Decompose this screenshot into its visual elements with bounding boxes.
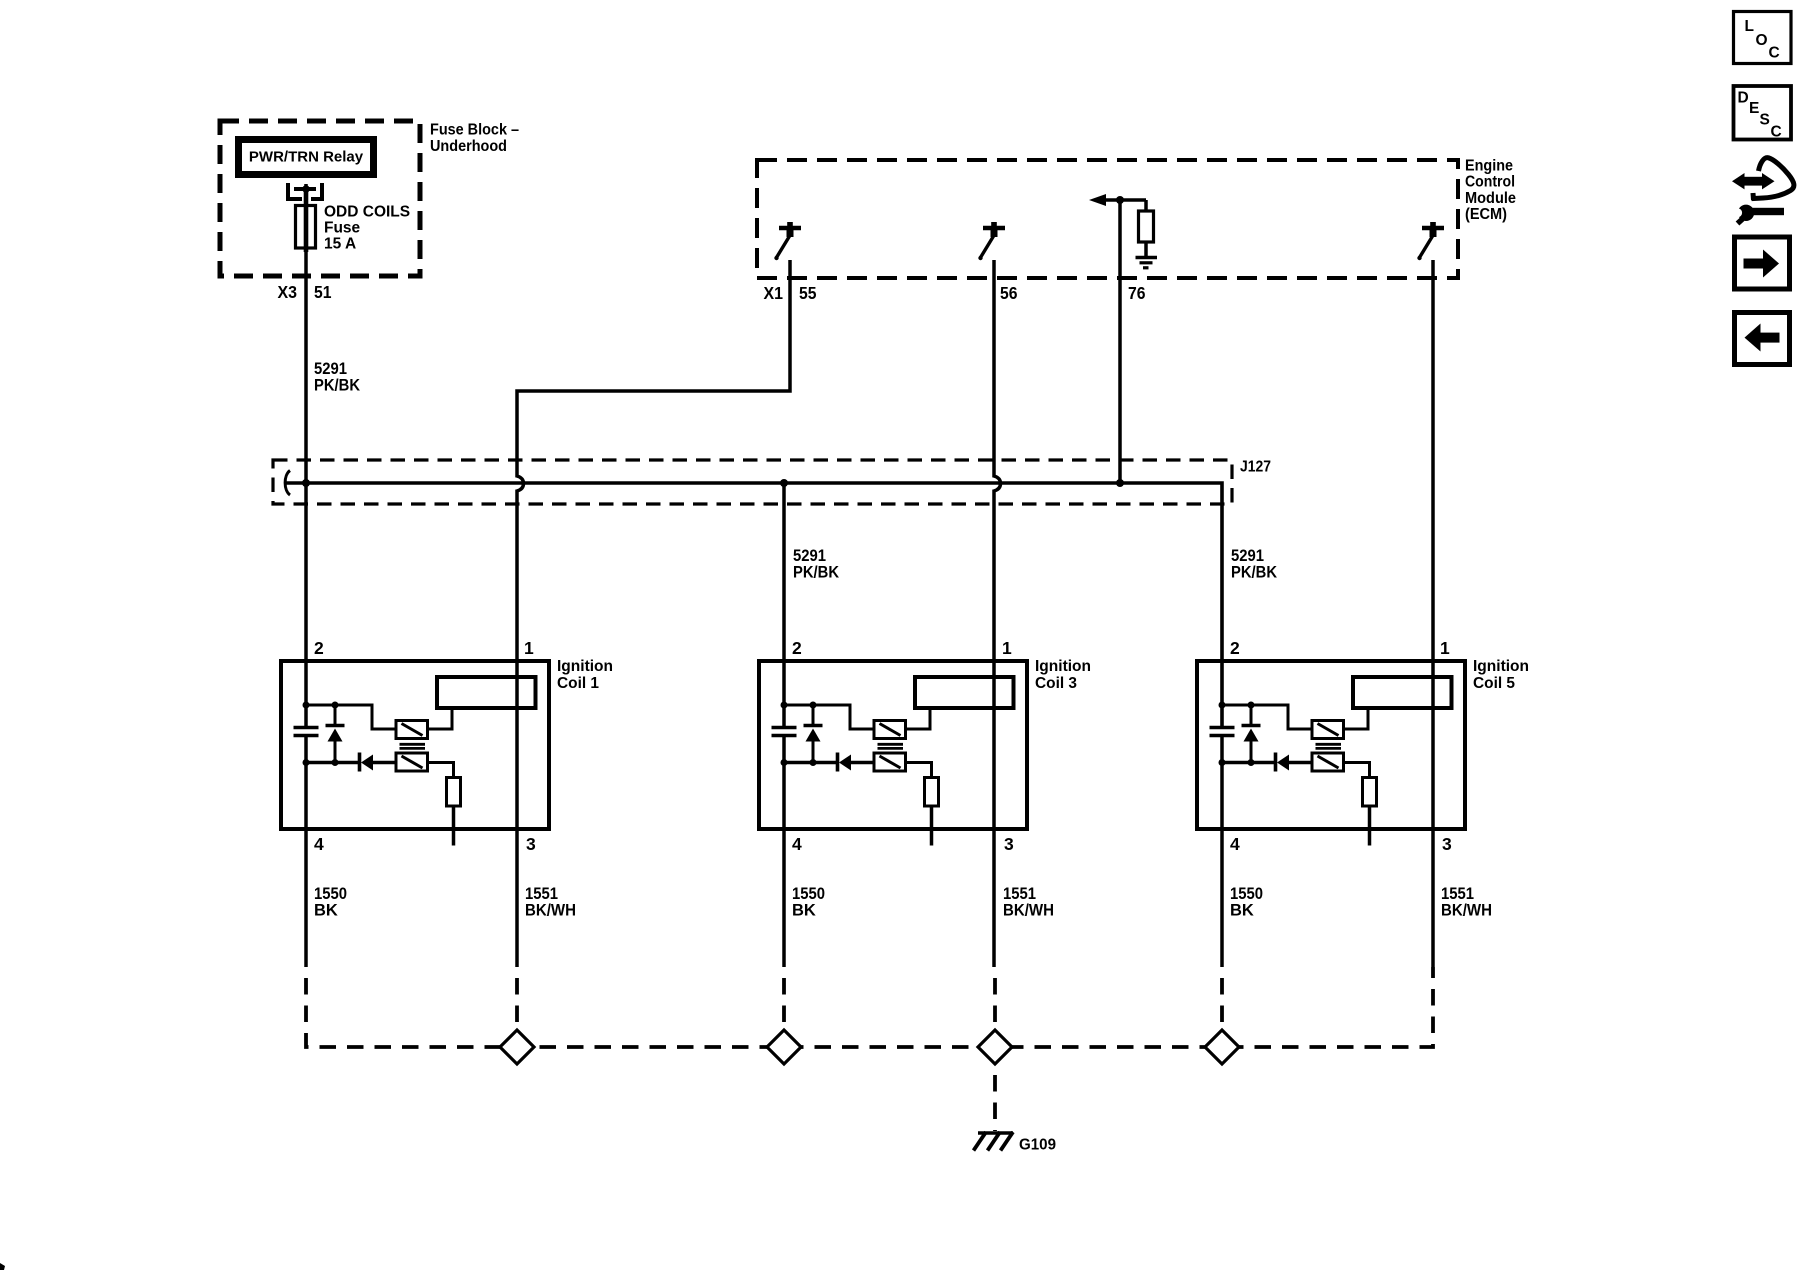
svg-text:1550: 1550 xyxy=(1230,885,1263,903)
node dots coil 1 xyxy=(303,702,339,767)
optocoupler upper half U1a (coil 3) xyxy=(874,721,906,739)
wire label 1550 BK xyxy=(314,885,347,919)
svg-text:2: 2 xyxy=(314,638,324,658)
svg-text:Underhood: Underhood xyxy=(430,138,507,155)
svg-text:3: 3 xyxy=(526,834,536,854)
svg-text:15 A: 15 A xyxy=(324,236,356,253)
node: bus junction at fuse feed xyxy=(302,479,310,487)
svg-text:Control: Control xyxy=(1465,174,1515,191)
wire: coil 3 lower internal rail xyxy=(784,761,836,765)
svg-text:Coil 5: Coil 5 xyxy=(1473,675,1515,692)
svg-text:5291: 5291 xyxy=(1231,547,1264,565)
ground (ECM internal) xyxy=(1136,258,1158,268)
ECM output driver (pin 55) xyxy=(774,222,801,260)
svg-text:G109: G109 xyxy=(1019,1137,1056,1154)
isolation barrier (coil 3) xyxy=(878,744,904,748)
dashed drop coil 1 pin 3 xyxy=(515,967,519,1032)
svg-text:(ECM): (ECM) xyxy=(1465,206,1507,223)
ECM pin 76 internal circuit: arrow to other circuits xyxy=(1089,194,1146,206)
wire: optocoupler to primary winding (coil 1) xyxy=(428,708,453,729)
dashed drop coil 5 pin 4 xyxy=(1220,967,1224,1032)
dashed drop coil 3 pin 3 xyxy=(993,967,997,1032)
wire: coil 1 upper internal rail xyxy=(306,705,396,729)
label: Ignition Coil 5 xyxy=(1473,658,1529,692)
svg-text:Ignition: Ignition xyxy=(1035,658,1091,675)
svg-text:1551: 1551 xyxy=(525,885,558,903)
resistor R (coil 1) xyxy=(447,778,461,807)
node: bus junction to coil 3 pin 2 xyxy=(780,479,788,487)
icon: forward arrow button xyxy=(1735,237,1790,289)
optocoupler upper half U1a (coil 5) xyxy=(1312,721,1344,739)
label: Ignition Coil 3 xyxy=(1035,658,1091,692)
wire: capacitor to pin 4 (coil 5) xyxy=(1220,737,1224,967)
ECM output driver (right, unnumbered pin) xyxy=(1417,222,1444,260)
wire: optocoupler to resistor (coil 1) xyxy=(428,763,454,779)
svg-text:X3: X3 xyxy=(278,282,298,302)
optocoupler lower half U1b (coil 3) xyxy=(874,753,906,771)
capacitor C (coil 1) xyxy=(294,728,319,736)
svg-text:55: 55 xyxy=(799,283,817,303)
svg-text:2: 2 xyxy=(792,638,802,658)
dashed drop coil 3 pin 4 xyxy=(782,967,786,1032)
svg-text:5291: 5291 xyxy=(793,547,826,565)
svg-text:3: 3 xyxy=(1004,834,1014,854)
resistor R (coil 3) xyxy=(925,778,939,807)
label: Engine Control Module (ECM) xyxy=(1465,157,1516,223)
ground harness bus (dashed) xyxy=(306,967,1433,1047)
svg-text:56: 56 xyxy=(1000,283,1018,303)
svg-text:BK/WH: BK/WH xyxy=(1441,901,1492,919)
isolation barrier (coil 5) xyxy=(1316,744,1342,748)
svg-text:1550: 1550 xyxy=(314,885,347,903)
pin labels X1 55 56 76 xyxy=(764,283,1146,303)
svg-text:BK/WH: BK/WH xyxy=(1003,901,1054,919)
wire: optocoupler to resistor (coil 5) xyxy=(1344,763,1370,779)
label: ODD COILS Fuse 15 A xyxy=(324,204,410,253)
svg-text:X1: X1 xyxy=(764,283,784,303)
optocoupler lower half U1b (coil 1) xyxy=(396,753,428,771)
wire label 5291 PK/BK (coil 5 feed) xyxy=(1231,547,1277,581)
wire label 1551 BK/WH xyxy=(525,885,576,919)
ignition coil 5 module box xyxy=(1197,661,1465,829)
wire: capacitor to pin 4 (coil 3) xyxy=(782,737,786,967)
coil winding block (coil 3) xyxy=(915,677,1014,708)
relay output terminal clips xyxy=(288,183,302,199)
wire label 5291 PK/BK (fuse output) xyxy=(314,360,360,394)
ignition coil 3 module box xyxy=(759,661,1027,829)
wire: ECM pin 55 to ignition coil 1 pin 1 (jogs over J127 bus) xyxy=(517,260,790,967)
svg-text:1551: 1551 xyxy=(1441,885,1474,903)
dashed drop to ground G109 xyxy=(993,1064,997,1131)
wire: coil 3 upper internal rail xyxy=(784,705,874,729)
svg-text:PK/BK: PK/BK xyxy=(314,376,360,394)
svg-text:1: 1 xyxy=(1440,638,1450,658)
svg-text:2: 2 xyxy=(1230,638,1240,658)
chassis ground G109 xyxy=(974,1132,1014,1151)
label: Fuse Block - Underhood xyxy=(430,122,519,155)
J127 in-line harness connector (dashed) xyxy=(273,460,1232,504)
fuse block - underhood (dashed enclosure) xyxy=(220,121,420,276)
svg-text:L: L xyxy=(1745,18,1754,35)
wire: ECM pin 56 to ignition coil 3 pin 1 (jogs over J127 bus) xyxy=(994,260,1001,967)
svg-text:5291: 5291 xyxy=(314,360,347,378)
label G109 xyxy=(1019,1137,1056,1154)
svg-text:4: 4 xyxy=(792,834,802,854)
wire: optocoupler to primary winding (coil 3) xyxy=(906,708,931,729)
ECM dashed enclosure xyxy=(757,160,1458,278)
wire label 5291 PK/BK (coil 3 feed) xyxy=(793,547,839,581)
svg-text:51: 51 xyxy=(314,282,332,302)
isolation barrier (coil 1) xyxy=(400,744,426,748)
svg-text:Ignition: Ignition xyxy=(1473,658,1529,675)
svg-text:J127: J127 xyxy=(1240,459,1271,476)
wire: coil 5 lower internal rail xyxy=(1222,761,1274,765)
svg-text:PK/BK: PK/BK xyxy=(793,563,839,581)
wire: bus branch down to coil 3 pin 2 xyxy=(782,483,786,726)
capacitor C (coil 5) xyxy=(1210,728,1235,736)
wire: resistor stub below box (coil 5) xyxy=(1368,806,1372,846)
svg-text:1551: 1551 xyxy=(1003,885,1036,903)
svg-text:Fuse: Fuse xyxy=(324,220,361,237)
svg-text:BK: BK xyxy=(1230,901,1254,919)
J127 terminal hook (left end of bus) xyxy=(285,471,290,496)
wire label 1551 BK/WH xyxy=(1003,885,1054,919)
wire: resistor stub below box (coil 1) xyxy=(452,806,456,846)
wire: relay to fuse to J127 to coil 1 pin 2 xyxy=(304,184,308,726)
icon: jumper repair (arrows and wrench) xyxy=(1732,158,1794,224)
splice diamond at x=784 xyxy=(767,1030,801,1064)
diode D2 (coil 3) xyxy=(838,753,875,772)
wire: optocoupler to resistor (coil 3) xyxy=(906,763,932,779)
wire: resistor stub below box (coil 3) xyxy=(930,806,934,846)
svg-text:1: 1 xyxy=(1002,638,1012,658)
diode D2 (coil 1) xyxy=(360,753,397,772)
resistor R (coil 5) xyxy=(1363,778,1377,807)
pin numbers coil 5 xyxy=(1230,638,1452,854)
svg-text:1550: 1550 xyxy=(792,885,825,903)
svg-text:O: O xyxy=(1756,32,1768,49)
svg-text:BK: BK xyxy=(792,901,816,919)
svg-text:Coil 1: Coil 1 xyxy=(557,675,599,692)
svg-text:S: S xyxy=(1760,112,1770,129)
capacitor C (coil 3) xyxy=(772,728,797,736)
svg-text:Fuse Block –: Fuse Block – xyxy=(430,122,519,139)
zener diode D1 (coil 3) xyxy=(804,705,823,763)
wire label 1551 BK/WH xyxy=(1441,885,1492,919)
pin numbers coil 1 xyxy=(314,638,536,854)
svg-text:BK: BK xyxy=(314,901,338,919)
wire label 1550 BK xyxy=(792,885,825,919)
svg-text:Engine: Engine xyxy=(1465,157,1513,174)
svg-text:4: 4 xyxy=(1230,834,1240,854)
svg-text:PWR/TRN Relay: PWR/TRN Relay xyxy=(249,149,364,166)
svg-text:D: D xyxy=(1738,90,1749,107)
label: Ignition Coil 1 xyxy=(557,658,613,692)
wire: 5291 PK/BK bus through J127 to coil 5 pin 2 xyxy=(285,483,1222,726)
icon: back arrow button xyxy=(1735,313,1790,365)
node: pin 76 junction xyxy=(1116,196,1124,204)
wire: coil 5 upper internal rail xyxy=(1222,705,1312,729)
diode D2 (coil 5) xyxy=(1276,753,1313,772)
ignition coil 1 module box xyxy=(281,661,549,829)
pin label X3 51 xyxy=(278,282,332,302)
icon: LOC button xyxy=(1734,12,1792,64)
svg-text:BK/WH: BK/WH xyxy=(525,901,576,919)
resistor R (ECM internal pull-down) xyxy=(1139,200,1154,256)
svg-text:E: E xyxy=(1749,100,1759,117)
wire: optocoupler to primary winding (coil 5) xyxy=(1344,708,1369,729)
svg-text:C: C xyxy=(1771,123,1782,140)
svg-text:3: 3 xyxy=(1442,834,1452,854)
wire: ECM right pin to ignition coil 5 pin 1 xyxy=(1431,260,1435,967)
optocoupler lower half U1b (coil 5) xyxy=(1312,753,1344,771)
zener diode D1 (coil 1) xyxy=(326,705,345,763)
svg-text:1: 1 xyxy=(524,638,534,658)
coil winding block (coil 5) xyxy=(1353,677,1452,708)
wire: coil 1 lower internal rail xyxy=(306,761,358,765)
node dots coil 3 xyxy=(781,702,817,767)
splice diamond at x=1222 xyxy=(1205,1030,1239,1064)
svg-text:C: C xyxy=(1769,44,1780,61)
coil winding block (coil 1) xyxy=(437,677,536,708)
icon: DESC button xyxy=(1734,86,1792,140)
svg-text:Coil 3: Coil 3 xyxy=(1035,675,1077,692)
page artifact speck (bottom-left) xyxy=(0,1263,5,1270)
ECM output driver (pin 56) xyxy=(978,222,1005,260)
splice diamond at x=517 xyxy=(500,1030,534,1064)
pin numbers coil 3 xyxy=(792,638,1014,854)
relay K (PWR/TRN Relay) xyxy=(235,136,377,178)
svg-text:76: 76 xyxy=(1128,283,1146,303)
node dots coil 5 xyxy=(1219,702,1255,767)
wire: ECM pin 76 down to J127 bus xyxy=(1118,200,1122,481)
zener diode D1 (coil 5) xyxy=(1242,705,1261,763)
svg-text:Module: Module xyxy=(1465,190,1516,207)
svg-text:PK/BK: PK/BK xyxy=(1231,563,1277,581)
terminal bar with junction dot xyxy=(294,187,316,191)
label J127 xyxy=(1240,459,1271,476)
svg-text:Ignition: Ignition xyxy=(557,658,613,675)
svg-text:4: 4 xyxy=(314,834,324,854)
optocoupler upper half U1a (coil 1) xyxy=(396,721,428,739)
wire label 1550 BK xyxy=(1230,885,1263,919)
splice diamond at x=995 xyxy=(978,1030,1012,1064)
svg-text:ODD COILS: ODD COILS xyxy=(324,204,410,221)
wire: capacitor to pin 4 (coil 1) xyxy=(304,737,308,967)
fuse F (ODD COILS Fuse 15 A) xyxy=(296,206,316,249)
node: bus junction from ECM pin 76 xyxy=(1116,479,1124,487)
